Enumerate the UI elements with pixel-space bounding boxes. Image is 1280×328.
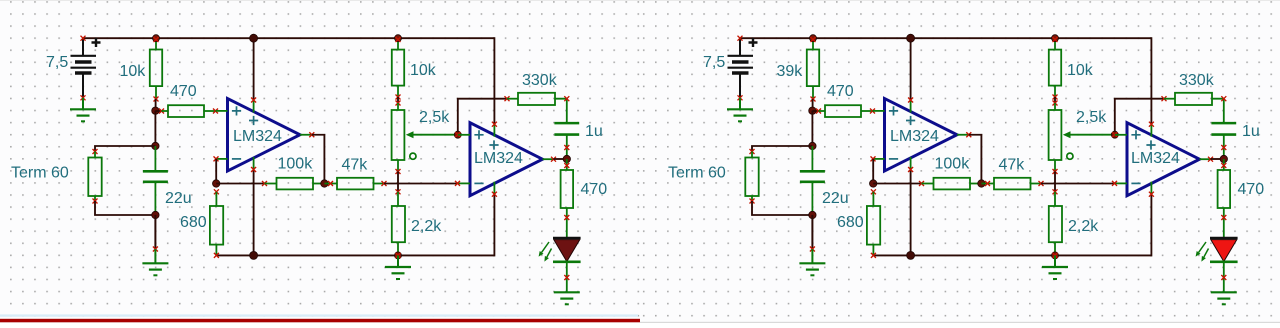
resistor R32 680 vertical [867,189,880,258]
resistor R12 39k vertical [807,42,819,102]
potentiometer P12 2,5k [1049,101,1115,175]
node bottom-rail junction U11 V- [250,251,258,259]
wire V+ rail right drop to op-amp U21 V+ pin [493,37,495,124]
LED D11 [553,238,581,292]
thermistor RT1 Term 60 [88,149,101,204]
node D junction (U1- / R3 / R4) 1 [213,180,220,187]
svg-text:22u: 22u [165,190,192,207]
op-amp U22 LM324 [1112,122,1213,197]
potentiometer P11 wiper terminal circle [410,153,416,159]
svg-text:7,5: 7,5 [703,54,725,71]
wire U12 output down to node E [969,135,982,184]
capacitor C11 22u [143,146,168,215]
resistor R51 47k horizontal [324,178,386,190]
wire R82 left pin over and down to wiper node [1115,99,1164,135]
svg-text:47k: 47k [999,157,1026,174]
resistor R42 100k horizontal [919,178,981,190]
svg-text:10k: 10k [1067,62,1094,79]
wire R51 to U2 inverting input [384,183,458,185]
ground under battery B2 [727,109,753,121]
svg-text:330k: 330k [1179,72,1215,89]
grid dots right window [640,0,1280,323]
wire battery B1 to ground [82,98,84,110]
svg-text:47k: 47k [342,157,369,174]
battery B1 7,5V [71,36,101,101]
wire V+ rail drop to op-amp U12 V+ pin [910,38,912,100]
node rail junction at R12 top [810,35,817,42]
node B junction (thermistor/C1) 1 [152,142,159,149]
svg-text:22u: 22u [822,190,849,207]
op-amp U21 LM324 [455,122,556,197]
node D junction (U1- / R3 / R4) 2 [870,180,877,187]
wire battery B2 to ground [739,98,741,110]
resistor R82 330k horizontal [1162,93,1227,123]
wire node C to ground 1 [154,215,156,249]
ground under C11 [142,263,168,275]
svg-text:680: 680 [180,214,207,231]
LED D11 light arrows [539,242,549,257]
svg-text:470: 470 [1238,181,1265,198]
svg-text:1u: 1u [1242,123,1260,140]
wire op-amp U11 V- pin to bottom rail [253,170,255,256]
ground under R71 [385,267,411,279]
node A junction (R1/R2/C1 branch) 1 [152,107,159,114]
LED D12 [1210,238,1238,292]
wire node B to thermistor RT1 [95,146,155,152]
node rail junction at R62 top [1052,35,1059,42]
battery B2 7,5V [728,36,758,101]
wire node D to R42 [873,183,921,185]
node C junction (C1 bottom) 1 [152,211,159,218]
node G junction (R7 bottom / rail / ground) 1 [395,252,402,259]
ground under LED D11 [554,292,580,304]
node rail junction at R61 top [395,35,402,42]
node H junction (wiper / R8 / U2+) 2 [1111,131,1118,138]
node E junction (U1 out / R4 / R5) 2 [978,180,985,187]
svg-text:LM324: LM324 [1131,150,1180,167]
node I junction (U2 out / C2 / R9) 1 [563,155,570,162]
left window bottom border (dark red) [0,319,640,323]
potentiometer P12 wiper terminal circle [1067,153,1073,159]
resistor R71 2,2k vertical [392,189,405,255]
resistor R81 330k horizontal [505,93,570,123]
ground under battery B1 [70,109,96,121]
svg-text:10k: 10k [410,62,437,79]
wire thermistor RT2 bottom to node C [752,201,812,215]
svg-text:LM324: LM324 [474,150,523,167]
node A junction (R1/R2/C1 branch) 2 [809,107,816,114]
svg-text:330k: 330k [522,72,558,89]
svg-text:680: 680 [837,214,864,231]
svg-text:2,5k: 2,5k [1076,109,1107,126]
node G junction (R7 bottom / rail / ground) 2 [1052,252,1059,259]
svg-text:LM324: LM324 [890,128,939,145]
wire U12 inverting input down to node D [872,159,874,184]
wire op-amp U22 V- pin to bottom rail [1150,194,1152,256]
wire R61 bottom to potentiometer P11 [397,97,399,103]
top window edge [0,0,1280,1]
capacitor C22 1u [1211,123,1236,159]
svg-text:470: 470 [170,83,197,100]
resistor R21 470 horizontal [159,105,218,117]
wire U11 inverting input down to node D [215,159,217,184]
resistor R52 47k horizontal [981,178,1043,190]
wire top supply rail (net V+) 1 [83,37,494,39]
resistor R61 10k vertical [392,42,404,100]
wire bottom ground rail 2 [874,254,1152,256]
wire node D to R41 [216,183,264,185]
wire top supply rail (net V+) 2 [740,37,1151,39]
left window bottom highlight strip [0,314,638,316]
wire R11 bottom to node A [155,99,157,111]
thermistor RT2 Term 60 [745,149,758,204]
wire op-amp U21 V- pin to bottom rail [493,194,495,256]
svg-text:LM324: LM324 [233,128,282,145]
node bottom-rail junction U12 V- [907,251,915,259]
wire U21 output to node I [554,158,567,160]
wire node C to ground 2 [811,215,813,249]
node rail junction U11 V+ [250,34,258,42]
wire op-amp U12 V- pin to bottom rail [910,170,912,256]
svg-text:470: 470 [581,181,608,198]
node rail junction U12 V+ [907,34,915,42]
svg-text:10k: 10k [120,63,147,80]
wire R62 bottom to potentiometer P12 [1054,97,1056,103]
ground under C12 [799,263,825,275]
op-amp U12 LM324 [871,98,972,173]
wire bottom ground rail 1 [217,254,495,256]
wire node A to R21 [155,110,162,112]
wire R81 left pin over and down to wiper node [458,99,507,135]
wire P12 bottom through node F to R72 [1054,172,1056,192]
resistor R72 2,2k vertical [1049,189,1062,255]
wire node G to ground 1 [397,255,399,267]
resistor R22 470 horizontal [816,105,875,117]
svg-text:1u: 1u [585,123,603,140]
node H junction (wiper / R8 / U2+) 1 [454,131,461,138]
wire V+ rail right drop to op-amp U22 V+ pin [1150,37,1152,124]
wire node A to R22 [812,110,819,112]
svg-text:Term 60: Term 60 [11,165,69,182]
svg-text:100k: 100k [935,155,971,172]
resistor R91 470 vertical [561,159,574,237]
wire R52 to U2 inverting input [1041,183,1115,185]
resistor R41 100k horizontal [262,178,324,190]
capacitor C21 1u [554,123,579,159]
grid dots left window [0,0,640,317]
svg-text:2,5k: 2,5k [419,109,450,126]
wire U11 output down to node E [312,135,325,184]
svg-text:39k: 39k [777,63,804,80]
ground under R72 [1042,267,1068,279]
node E junction (U1 out / R4 / R5) 1 [321,180,328,187]
svg-text:470: 470 [827,83,854,100]
wire U22 output to node I [1211,158,1224,160]
wire V+ rail drop to op-amp U11 V+ pin [253,38,255,100]
wire P11 bottom through node F to R71 [397,172,399,192]
resistor R31 680 vertical [210,189,223,258]
ground under LED D12 [1211,292,1237,304]
resistor R11 10k vertical [150,42,162,102]
node C junction (C1 bottom) 2 [809,211,816,218]
capacitor C12 22u [800,146,825,215]
wire node B to thermistor RT2 [752,146,812,152]
node B junction (thermistor/C1) 2 [809,142,816,149]
faint window edge line bottom right [640,322,1280,323]
svg-text:2,2k: 2,2k [1068,218,1099,235]
node rail junction at R11 top [153,35,160,42]
potentiometer P11 2,5k [392,101,458,175]
LED D12 light arrows [1196,242,1206,257]
wire node A down to node B 1 [154,111,156,146]
wire thermistor RT1 bottom to node C [95,201,155,215]
op-amp U11 LM324 [214,98,315,173]
svg-text:7,5: 7,5 [46,54,68,71]
resistor R62 10k vertical [1049,42,1061,100]
svg-text:100k: 100k [278,155,314,172]
resistor R92 470 vertical [1218,159,1231,237]
svg-text:2,2k: 2,2k [411,218,442,235]
node I junction (U2 out / C2 / R9) 2 [1220,155,1227,162]
wire node A down to node B 2 [811,111,813,146]
wire R12 bottom to node A [812,99,814,111]
wire node G to ground 2 [1054,255,1056,267]
svg-text:Term 60: Term 60 [668,165,726,182]
